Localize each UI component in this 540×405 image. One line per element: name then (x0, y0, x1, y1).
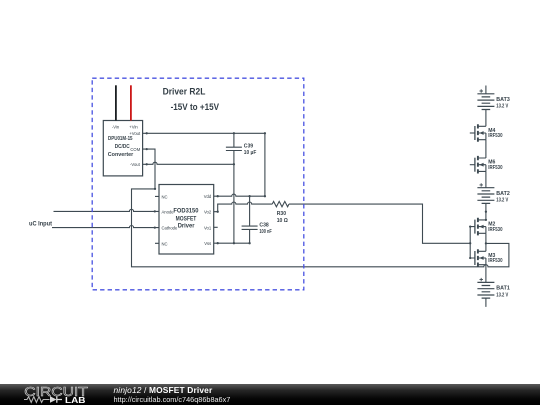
svg-text:+Vin: +Vin (129, 125, 138, 130)
svg-text:IRF530: IRF530 (488, 227, 502, 233)
svg-text:13.2 V: 13.2 V (496, 104, 508, 110)
svg-text:Vss: Vss (204, 241, 211, 246)
svg-text:100 nF: 100 nF (259, 229, 271, 235)
svg-text:Driver: Driver (178, 223, 195, 230)
svg-text:13.2 V: 13.2 V (496, 198, 508, 204)
svg-text:-Vout: -Vout (130, 162, 141, 167)
svg-text:DC/DC: DC/DC (115, 144, 130, 150)
svg-text:Vo1: Vo1 (204, 225, 212, 230)
svg-text:FOD3150: FOD3150 (173, 208, 199, 215)
svg-text:C39: C39 (244, 144, 254, 150)
svg-text:LAB: LAB (65, 395, 86, 405)
svg-text:Driver R2L: Driver R2L (163, 87, 206, 98)
svg-text:COM: COM (130, 147, 140, 152)
svg-text:Converter: Converter (108, 152, 134, 158)
svg-text:BAT3: BAT3 (496, 97, 510, 103)
svg-text:10 Ω: 10 Ω (277, 218, 288, 224)
svg-text:-Vin: -Vin (112, 125, 120, 130)
svg-text:IRF530: IRF530 (488, 258, 502, 264)
svg-text:R30: R30 (277, 211, 287, 217)
svg-text:uC Input: uC Input (29, 222, 52, 228)
svg-text:NC: NC (162, 241, 168, 246)
svg-text:Anode: Anode (162, 210, 175, 215)
svg-text:IRF530: IRF530 (488, 133, 502, 139)
svg-text:Cathode: Cathode (162, 226, 179, 231)
svg-text:IRF530: IRF530 (488, 165, 502, 171)
svg-text:Vo2: Vo2 (204, 210, 212, 215)
svg-text:+Vout: +Vout (129, 131, 141, 136)
svg-text:Vdd: Vdd (204, 194, 212, 199)
svg-text:MOSFET: MOSFET (176, 215, 197, 222)
svg-text:BAT1: BAT1 (496, 286, 510, 292)
svg-text:13.2 V: 13.2 V (496, 292, 508, 298)
svg-text:DPU01M-15: DPU01M-15 (108, 136, 133, 142)
svg-text:NC: NC (162, 194, 168, 199)
svg-text:C38: C38 (259, 223, 269, 229)
svg-text:10 µF: 10 µF (244, 150, 256, 156)
svg-text:-15V to +15V: -15V to +15V (171, 102, 219, 112)
svg-text:BAT2: BAT2 (496, 191, 510, 197)
